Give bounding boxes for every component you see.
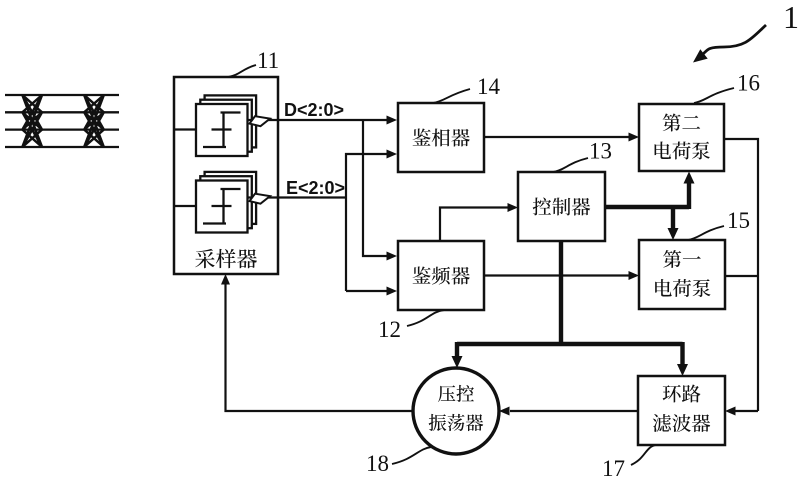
wire: E branch up to phase detector xyxy=(346,154,390,291)
bus flag on D output xyxy=(250,116,271,126)
wire: second charge pump output to right rail xyxy=(724,139,758,411)
sampler box 11 (采样器) xyxy=(174,77,278,274)
wire: frequency detector top to controller input xyxy=(440,208,509,242)
wire: first charge pump output joins right rail xyxy=(725,275,758,277)
comparator stack icon (edge sampler) xyxy=(196,172,256,233)
VCO circle 18 (压控振荡器) xyxy=(413,368,499,454)
wire: right rail into loop filter xyxy=(734,410,758,412)
svg-text:E<2:0>: E<2:0> xyxy=(286,178,345,198)
arrowheads into frequency detector xyxy=(387,252,398,296)
sampler input stubs xyxy=(174,130,196,207)
wire: E branch down to frequency detector xyxy=(346,290,390,292)
first charge pump box 15 (第一电荷泵) xyxy=(639,240,725,309)
phase detector box 14 (鉴相器) xyxy=(398,103,484,172)
bus flag on E output xyxy=(250,194,271,204)
arrowheads into phase detector xyxy=(387,116,398,159)
wire: VCO feedback to sampler xyxy=(226,283,414,411)
input eye-diagram signal xyxy=(5,95,119,147)
loop filter box 17 (环路滤波器) xyxy=(638,376,725,445)
svg-text:13: 13 xyxy=(589,139,612,164)
wire: phase detector to second charge pump xyxy=(484,136,630,138)
frequency detector box 12 (鉴频器) xyxy=(398,241,484,310)
wire: loop filter to VCO xyxy=(510,410,638,412)
node: D branch junction xyxy=(363,120,390,256)
svg-text:D<2:0>: D<2:0> xyxy=(284,100,344,120)
wire: D<2:0> bus from sampler to phase detector xyxy=(247,119,390,121)
svg-text:18: 18 xyxy=(366,451,389,476)
sampler label text 采样器 xyxy=(195,249,257,268)
wire: E<2:0> bus from sampler xyxy=(247,196,346,198)
thick wire: controller down to VCO / loop filter xyxy=(457,241,683,366)
thick wire: controller to charge pumps xyxy=(605,180,689,229)
svg-text:11: 11 xyxy=(257,48,279,73)
svg-text:1: 1 xyxy=(783,0,799,35)
svg-text:12: 12 xyxy=(378,317,401,342)
svg-text:15: 15 xyxy=(727,208,750,233)
svg-text:17: 17 xyxy=(602,456,625,479)
svg-text:14: 14 xyxy=(477,74,501,99)
controller box 13 (控制器) xyxy=(518,172,605,241)
svg-text:16: 16 xyxy=(737,71,760,96)
wire: frequency detector to first charge pump xyxy=(484,274,630,276)
comparator stack icon (data sampler) xyxy=(196,95,256,156)
second charge pump box 16 (第二电荷泵) xyxy=(639,104,724,171)
